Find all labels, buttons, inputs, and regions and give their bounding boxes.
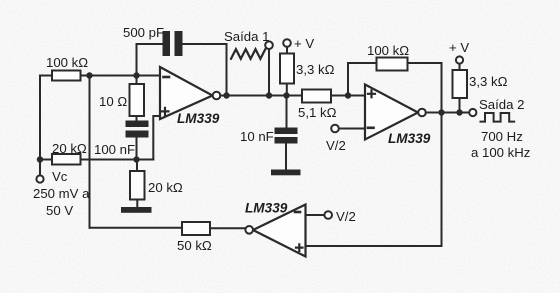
wire U2 inverting to V/2	[339, 128, 365, 130]
svg-text:LM339: LM339	[177, 111, 220, 126]
pin minus U2	[368, 127, 374, 130]
node G feedback junction	[345, 92, 351, 98]
wire bottom to 50k	[90, 227, 183, 229]
pin plus U2	[368, 90, 375, 97]
wire node C to 20k vertical	[136, 160, 138, 172]
svg-text:20 kΩ: 20 kΩ	[148, 180, 183, 195]
wire vertical from node A down to bottom wire	[89, 76, 91, 228]
terminal V/2 U2	[331, 125, 339, 133]
node H feedback right	[438, 109, 444, 115]
output circle U2	[418, 109, 426, 117]
svg-text:20 kΩ: 20 kΩ	[52, 141, 87, 156]
svg-text:V/2: V/2	[336, 209, 356, 224]
terminal V/2 U3	[324, 211, 332, 219]
ground left	[121, 207, 152, 213]
terminal Saida 2	[469, 109, 476, 116]
wire 5.1k to U2 plus input	[331, 95, 365, 97]
node C 100nF/20k junction	[133, 156, 139, 162]
resistor 3.3k right pullup	[453, 70, 468, 98]
capacitor 10nF	[275, 128, 298, 144]
wire left loop Vc to 100k and 20k	[40, 76, 52, 160]
wire 500pF feedback right	[183, 44, 227, 96]
wire U1 output bus	[220, 95, 302, 97]
square wave symbol	[481, 113, 515, 122]
resistor 5.1k	[302, 90, 331, 103]
capacitor 500pF	[163, 31, 183, 56]
svg-text:+ V: + V	[294, 36, 314, 51]
resistor 100k input	[52, 71, 81, 81]
wire U2 output bus	[426, 112, 469, 114]
pin plus U3	[296, 244, 303, 251]
svg-text:500 pF: 500 pF	[123, 25, 164, 40]
waveform triangle symbol	[231, 49, 265, 59]
wire 10 ohm to 100nF	[136, 116, 138, 121]
resistor 3.3k left pullup	[280, 54, 294, 84]
node A junction 100k/vertical	[86, 72, 92, 78]
wire 100k feedback left	[348, 63, 377, 96]
node F pullup/10nF	[283, 92, 289, 98]
node E saida1	[266, 92, 272, 98]
svg-text:10 Ω: 10 Ω	[99, 94, 127, 109]
svg-text:250 mV a: 250 mV a	[33, 186, 90, 201]
op-amp U1 LM339	[160, 67, 213, 119]
wire 10nF down	[286, 96, 288, 128]
svg-text:3,3 kΩ: 3,3 kΩ	[296, 62, 335, 77]
wire saida1 up	[268, 49, 270, 96]
svg-text:LM339: LM339	[388, 131, 431, 146]
wire U2 output down to U3 plus	[306, 113, 442, 247]
wire +V left pullup	[286, 47, 288, 96]
pin minus U1	[164, 76, 170, 79]
wire 100nF to node C	[136, 138, 138, 160]
svg-text:50 V: 50 V	[46, 203, 73, 218]
wire 20k row	[81, 159, 154, 161]
op-amp U3 LM339	[253, 205, 306, 257]
svg-text:V/2: V/2	[326, 138, 346, 153]
svg-text:a 100 kHz: a 100 kHz	[471, 145, 530, 160]
wire Vc stub	[39, 160, 41, 176]
wire U3 inverting to V/2	[306, 214, 325, 216]
op-amp U2 LM339	[365, 85, 418, 140]
wire node B to 10 ohm	[136, 76, 138, 85]
wire 10nF to ground	[285, 144, 287, 170]
resistor 20k to ground	[130, 171, 145, 200]
terminal +V left	[283, 39, 291, 47]
svg-text:3,3 kΩ: 3,3 kΩ	[469, 74, 508, 89]
pin minus U3	[295, 211, 300, 214]
svg-text:50 kΩ: 50 kΩ	[177, 238, 212, 253]
wire 100k feedback right	[408, 63, 442, 113]
svg-text:100 nF: 100 nF	[94, 142, 135, 157]
resistor 10 ohm	[130, 84, 145, 116]
capacitor C 100nF	[126, 121, 149, 138]
svg-text:700 Hz: 700 Hz	[481, 129, 523, 144]
pin plus U1	[162, 108, 169, 115]
svg-text:Saída 2: Saída 2	[479, 97, 524, 112]
node B inverting input of U1	[133, 72, 139, 78]
svg-text:5,1 kΩ: 5,1 kΩ	[298, 105, 337, 120]
terminal Vc	[36, 175, 43, 182]
svg-text:100 kΩ: 100 kΩ	[46, 55, 88, 70]
svg-text:LM339: LM339	[245, 201, 288, 216]
ground middle	[271, 170, 301, 176]
output circle U1	[213, 92, 221, 100]
terminal +V right	[456, 56, 463, 63]
resistor 100k feedback	[377, 58, 408, 71]
wire 50k to U3 output	[210, 227, 245, 229]
output circle U3	[245, 226, 253, 234]
resistor 50k	[182, 222, 210, 235]
svg-text:10 nF: 10 nF	[240, 129, 274, 144]
terminal Saida 1	[265, 41, 273, 49]
wire U1 non-inverting input down	[153, 116, 160, 160]
svg-text:100 kΩ: 100 kΩ	[367, 43, 409, 58]
node I pullup right	[456, 109, 462, 115]
wire 100k to op-amp U1 inverting input	[81, 75, 161, 77]
svg-text:Saída 1: Saída 1	[224, 29, 269, 44]
node Vc junction	[37, 156, 43, 162]
node D cap return	[223, 92, 229, 98]
wire +V right pullup	[459, 64, 461, 113]
wire 20k to ground	[136, 200, 138, 208]
svg-text:+ V: + V	[449, 40, 469, 55]
svg-text:Vc: Vc	[52, 169, 68, 184]
wire 500pF feedback left	[137, 44, 163, 76]
resistor 20k input	[52, 154, 81, 165]
